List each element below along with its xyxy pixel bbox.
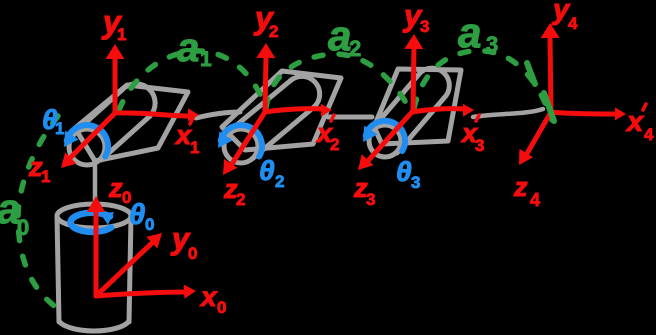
joint 2 cylinder barrel: [227, 81, 314, 159]
frame4 x-axis: [551, 112, 615, 114]
frame4 y-axis: [550, 36, 551, 112]
frame3 z-axis: [366, 112, 412, 163]
svg-text:4: 4: [568, 14, 578, 33]
svg-text:2: 2: [269, 22, 278, 41]
frame1 x-axis: [115, 113, 188, 116]
svg-text:0: 0: [217, 298, 226, 317]
tick above x3 label: [476, 115, 479, 121]
svg-text:3: 3: [411, 173, 420, 192]
length a1 dashed arc: [119, 51, 266, 110]
frame0 x-axis: [96, 292, 186, 296]
svg-text:1: 1: [41, 167, 50, 186]
frame2 z-axis: [230, 112, 265, 167]
joint 1 cylinder far cap: [122, 84, 155, 116]
joint 1 rotation arrow theta1 head: [64, 131, 79, 147]
svg-text:0: 0: [188, 244, 197, 263]
svg-text:4: 4: [530, 190, 540, 210]
svg-text:1: 1: [200, 48, 212, 71]
svg-text:θ: θ: [396, 156, 412, 187]
frame0 z-axis arrowhead: [87, 196, 105, 212]
svg-text:θ: θ: [129, 199, 145, 231]
link plate 2: [222, 71, 341, 150]
svg-text:2: 2: [349, 36, 361, 61]
frame3 x-axis arrowhead: [463, 104, 474, 117]
tick above x2 label: [331, 115, 334, 121]
joint 3 cylinder far cap: [420, 68, 449, 98]
svg-text:a: a: [328, 12, 351, 59]
frame0 x-axis arrowhead: [184, 285, 196, 299]
length a3 final dash 1: [527, 63, 535, 84]
base cylinder bottom arc: [59, 321, 129, 331]
frame3 y-axis arrowhead: [404, 34, 423, 49]
svg-text:0: 0: [17, 215, 29, 240]
joint 2 rotation arrow theta2 arc: [221, 125, 262, 156]
svg-text:2: 2: [275, 172, 284, 191]
link joint2 to joint3: [328, 115, 372, 120]
frame0 z-axis: [94, 210, 99, 296]
link plate 1: [75, 85, 188, 161]
joint 2 rotation arrow theta2 head: [218, 132, 233, 148]
svg-text:z: z: [108, 173, 123, 203]
frame3 x-axis: [412, 109, 463, 112]
svg-text:4: 4: [644, 125, 654, 144]
svg-text:1: 1: [190, 138, 199, 157]
frame1 x-axis arrowhead: [188, 108, 199, 121]
tick above x4 label: [643, 104, 646, 110]
link from base to joint 1: [93, 166, 98, 211]
base cylinder body: [57, 216, 131, 322]
frame1 y-axis: [113, 57, 118, 113]
length a2 dashed arc: [266, 54, 409, 108]
svg-text:0: 0: [145, 215, 154, 234]
length a3 dashed arc: [414, 51, 552, 120]
svg-text:3: 3: [366, 190, 375, 209]
link joint1 to joint2: [196, 112, 240, 118]
svg-text:2: 2: [236, 190, 245, 209]
link plate 3: [374, 69, 461, 144]
frame2 y-axis arrowhead: [256, 43, 275, 58]
svg-text:1: 1: [117, 25, 126, 44]
svg-text:a: a: [458, 9, 481, 56]
joint 3 cylinder end circle: [369, 125, 401, 157]
length a0 dashed arc: [18, 116, 60, 310]
frame0 y-axis arrowhead: [146, 233, 162, 249]
svg-text:2: 2: [330, 135, 339, 154]
frame0 y-axis: [96, 243, 152, 296]
svg-text:3: 3: [420, 17, 429, 36]
base rotation arrow theta0 head: [100, 212, 114, 225]
svg-text:x: x: [199, 281, 218, 312]
frame2 z-axis arrowhead: [223, 159, 237, 175]
svg-text:z: z: [513, 172, 528, 202]
svg-text:a: a: [177, 26, 199, 70]
joint 3 rotation arrow theta3 head: [363, 126, 378, 142]
frame1 z-axis: [66, 113, 115, 162]
svg-text:3: 3: [486, 32, 498, 57]
svg-text:3: 3: [475, 136, 484, 155]
frame1 y-axis arrowhead: [106, 44, 125, 59]
joint 1 rotation arrow theta1 arc: [67, 125, 108, 156]
joint 3 cylinder barrel: [373, 73, 444, 153]
base rotation arrow theta0 arc: [71, 213, 111, 232]
svg-text:1: 1: [55, 119, 64, 138]
joint 1 cylinder barrel: [73, 90, 150, 160]
frame3 z-axis arrowhead: [358, 154, 373, 170]
frame4 y-axis arrowhead: [541, 23, 560, 38]
frame4 z-axis arrowhead: [519, 149, 533, 165]
frame4 x-axis arrowhead: [615, 107, 626, 120]
frame1 z-axis arrowhead: [61, 152, 77, 168]
svg-text:θ: θ: [259, 155, 275, 186]
frame2 y-axis: [265, 56, 266, 112]
joint 1 cylinder end circle: [69, 129, 105, 165]
joint 2 cylinder far cap: [290, 76, 320, 107]
frame2 x-axis arrowhead: [321, 104, 332, 117]
frame2 x-axis: [265, 109, 322, 112]
length a3 final dash 2: [544, 93, 554, 121]
frame4 z-axis: [525, 112, 551, 157]
tick above x1 label: [190, 118, 193, 124]
joint 3 rotation arrow theta3 arc: [366, 121, 405, 151]
base cylinder top ellipse: [57, 204, 131, 228]
frame3 y-axis: [413, 47, 414, 112]
link joint3 to frame4: [473, 109, 543, 117]
joint 2 cylinder end circle: [224, 129, 258, 163]
